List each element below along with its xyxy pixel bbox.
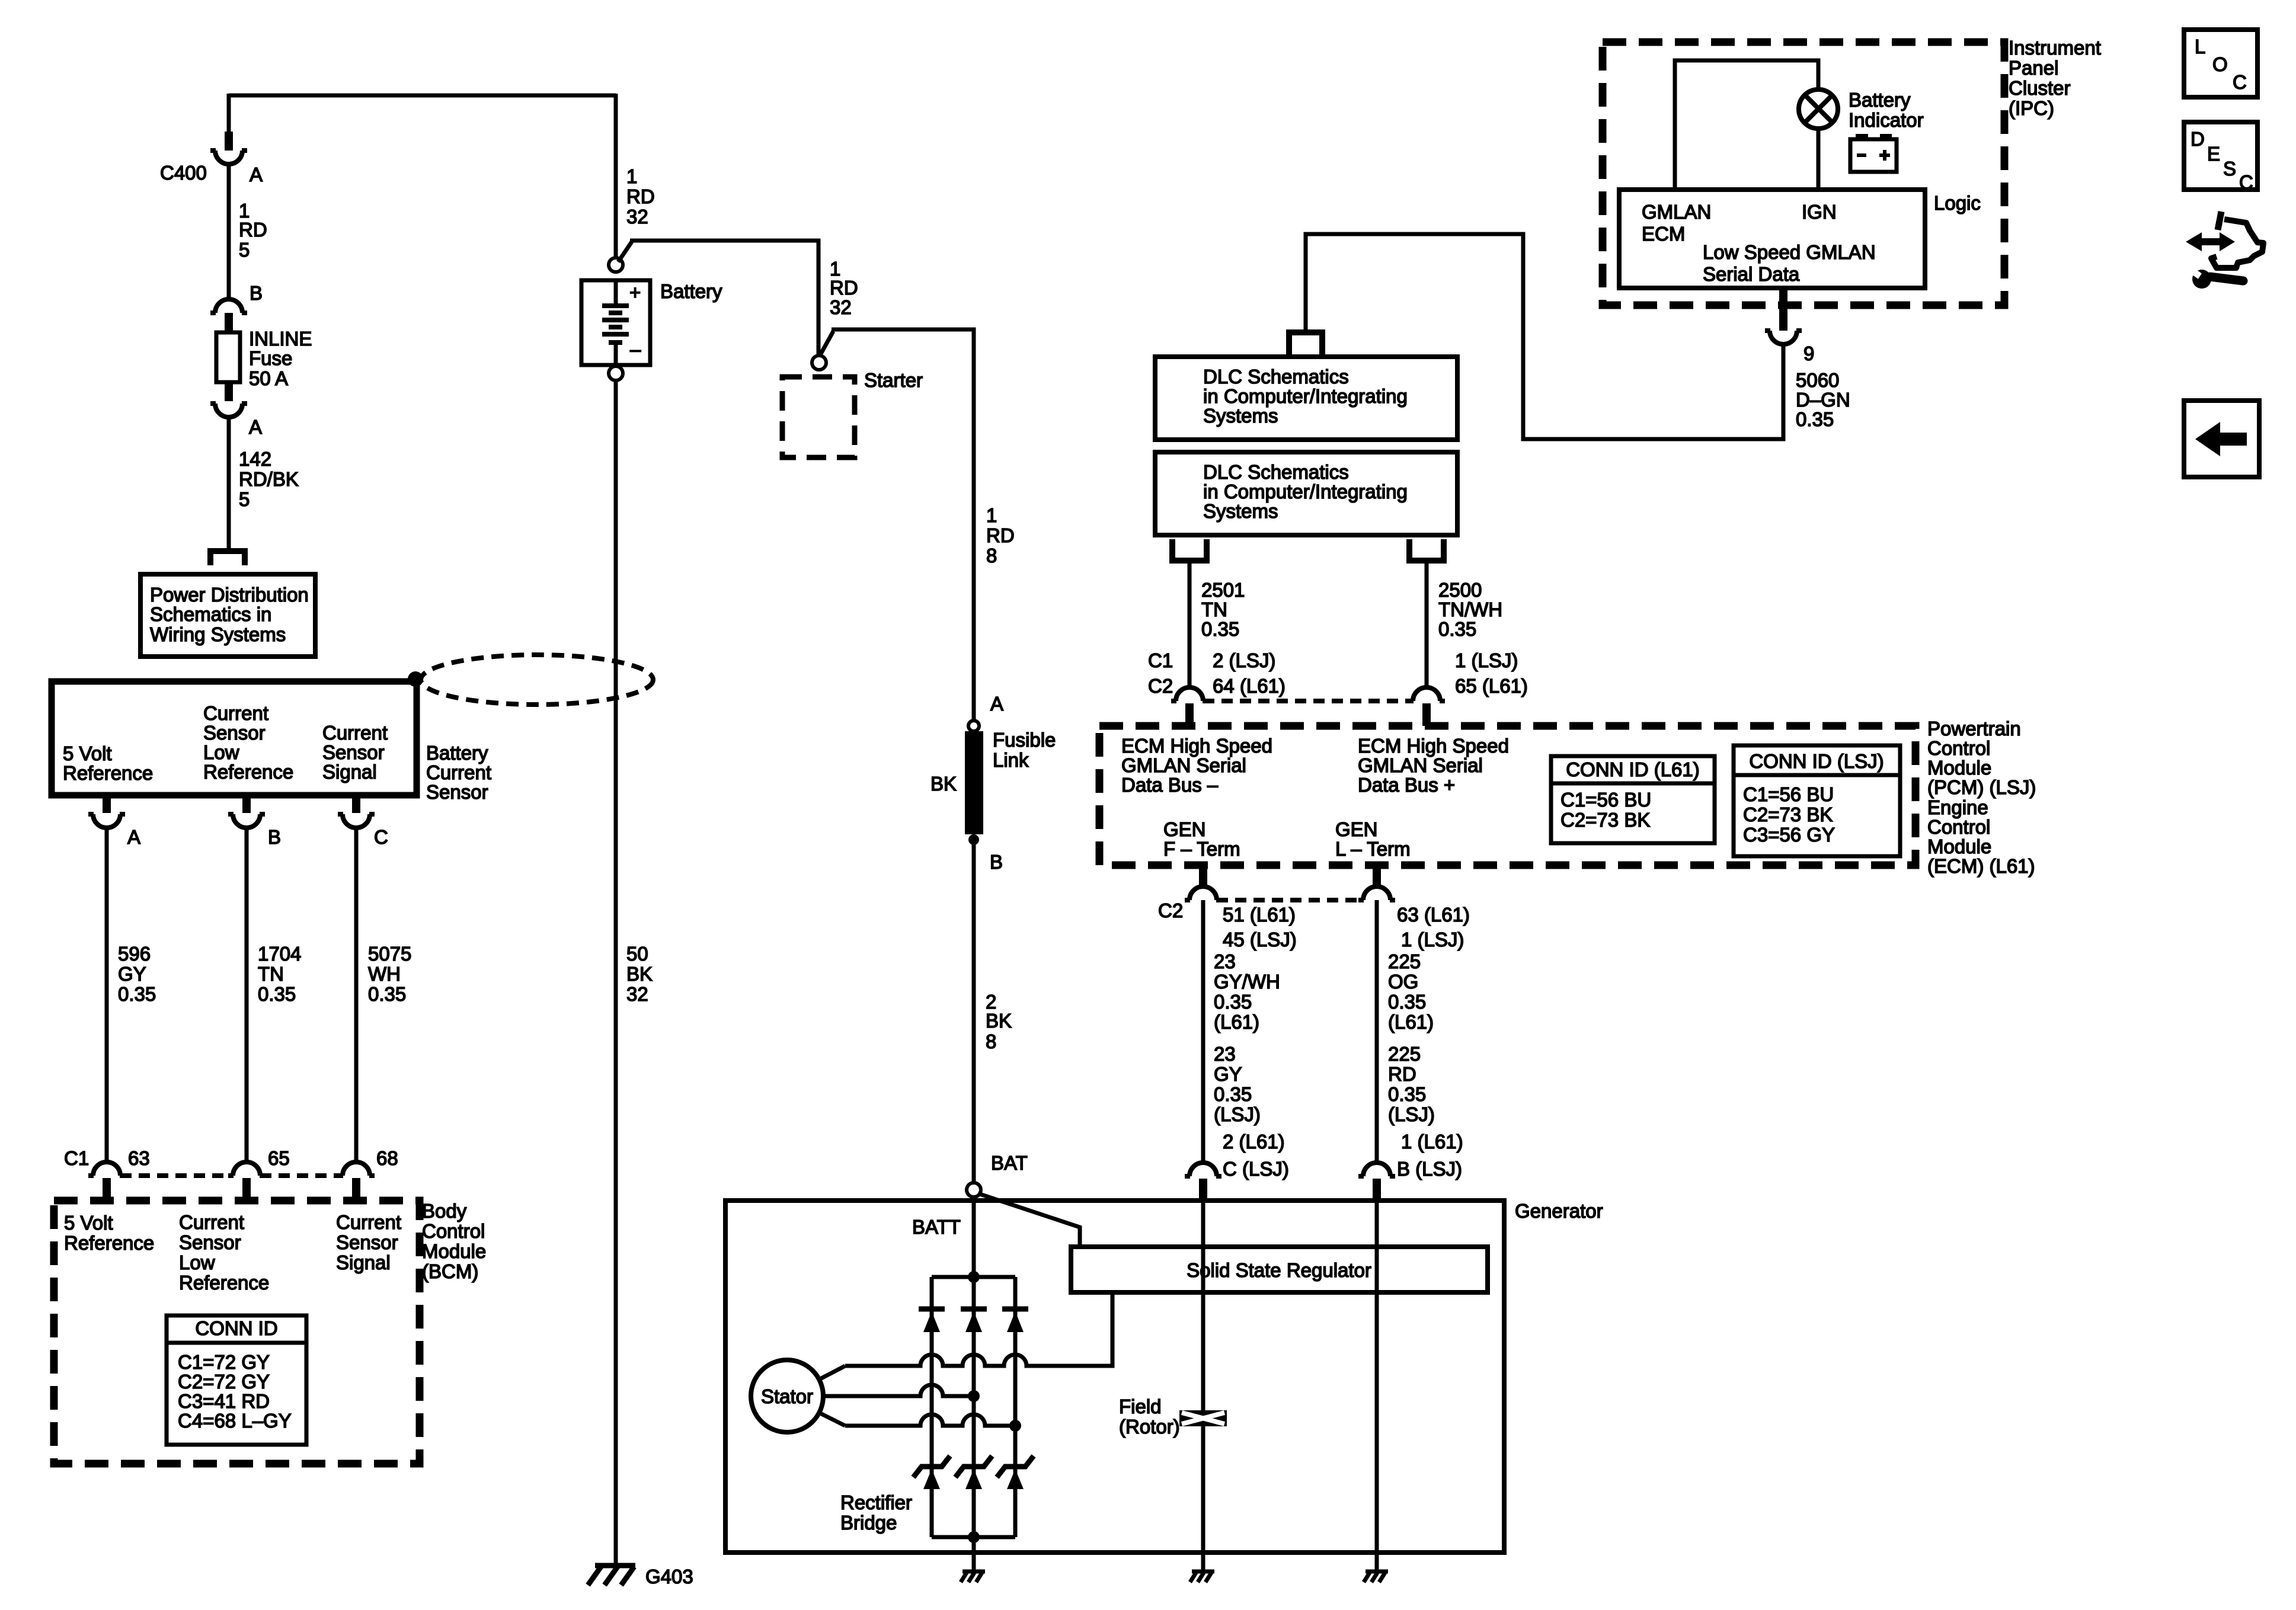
connector: fuse female arc B: [210, 299, 247, 313]
icon box: LOC: [2184, 30, 2257, 97]
svg-text:(LSJ): (LSJ): [1214, 1103, 1261, 1125]
svg-text:Sensor: Sensor: [203, 722, 266, 744]
box: DLC Schematics 2: [1155, 452, 1457, 535]
connector C400 female arc: [210, 151, 247, 164]
svg-text:Low: Low: [203, 741, 239, 763]
svg-text:5060: 5060: [1796, 369, 1839, 391]
diode bottom leg2 (avalanche): [955, 1456, 992, 1477]
wire: IPC serial data to DLC, circuit 5060 D-GN 0.35: [1306, 234, 1783, 439]
wire: diagonal tap at starter stud: [821, 331, 833, 354]
svg-text:1704: 1704: [258, 943, 301, 965]
terminal: battery positive stud: [609, 258, 623, 272]
svg-text:Signal: Signal: [322, 761, 377, 783]
ground: field leg: [1192, 1570, 1214, 1574]
svg-text:GMLAN Serial: GMLAN Serial: [1358, 754, 1483, 776]
connector: female arc A below fuse: [210, 404, 247, 417]
svg-text:(LSJ): (LSJ): [1388, 1103, 1435, 1125]
svg-text:Schematics in: Schematics in: [150, 603, 271, 625]
svg-text:0.35: 0.35: [1201, 618, 1239, 640]
diode top leg1: [919, 1307, 945, 1312]
svg-text:(PCM) (LSJ): (PCM) (LSJ): [1927, 776, 2036, 798]
svg-text:TN: TN: [1201, 598, 1227, 620]
svg-text:68: 68: [376, 1147, 398, 1169]
svg-text:in Computer/Integrating: in Computer/Integrating: [1203, 481, 1408, 502]
svg-text:C1=56 BU: C1=56 BU: [1560, 789, 1651, 811]
lamp: Battery Indicator: [1799, 89, 1838, 129]
wire: BAT stud into rectifier: [972, 1197, 976, 1277]
diode bottom leg3 (avalanche): [997, 1456, 1034, 1477]
svg-text:Engine: Engine: [1927, 796, 1988, 818]
svg-text:Control: Control: [1927, 737, 1990, 759]
svg-text:RD: RD: [626, 185, 655, 207]
svg-text:0.35: 0.35: [1388, 991, 1426, 1013]
svg-text:Field: Field: [1119, 1395, 1162, 1417]
svg-text:50: 50: [626, 943, 648, 965]
svg-text:C4=68 L–GY: C4=68 L–GY: [178, 1410, 292, 1432]
svg-text:Indicator: Indicator: [1849, 109, 1924, 131]
wire: sensor B to BCM 65, circuit 1704 TN 0.35: [245, 828, 249, 1162]
svg-text:OG: OG: [1388, 971, 1418, 993]
svg-text:GMLAN Serial: GMLAN Serial: [1121, 754, 1246, 776]
svg-text:Sensor: Sensor: [179, 1231, 241, 1253]
svg-text:1: 1: [986, 504, 997, 526]
svg-text:0.35: 0.35: [118, 983, 156, 1005]
svg-text:32: 32: [830, 296, 852, 318]
svg-text:Low: Low: [179, 1251, 215, 1273]
connector: ECM pin (GMLAN minus): [1171, 687, 1208, 701]
off-page bracket below DLC box 2 (right): [1409, 539, 1444, 561]
svg-text:Fusible: Fusible: [993, 729, 1056, 751]
svg-text:RD: RD: [1388, 1063, 1416, 1085]
svg-text:Reference: Reference: [64, 1232, 154, 1254]
svg-text:(BCM): (BCM): [422, 1260, 478, 1282]
wire: diagonal tap from battery positive to starter feed: [618, 242, 632, 262]
box: Body Control Module (BCM) dashed: [54, 1201, 420, 1464]
svg-text:1 (LSJ): 1 (LSJ): [1401, 929, 1464, 950]
svg-text:C (LSJ): C (LSJ): [1223, 1158, 1289, 1180]
wire: rectifier to ground: [972, 1537, 976, 1571]
wire: indicator to logic box: [1817, 129, 1821, 190]
svg-text:C: C: [374, 826, 388, 848]
svg-text:0.35: 0.35: [368, 983, 406, 1005]
svg-text:GEN: GEN: [1335, 818, 1378, 840]
svg-text:Cluster: Cluster: [2009, 77, 2071, 99]
svg-text:0.35: 0.35: [1388, 1083, 1426, 1105]
svg-text:B (LSJ): B (LSJ): [1397, 1158, 1462, 1180]
svg-text:8: 8: [986, 1030, 996, 1052]
terminal: generator BAT stud: [967, 1183, 981, 1197]
svg-text:51 (L61): 51 (L61): [1223, 904, 1296, 926]
table: CONN ID (L61): [1551, 756, 1715, 843]
svg-text:ECM High Speed: ECM High Speed: [1358, 735, 1509, 757]
battery internal bottom lead: [614, 344, 618, 365]
ground: generator BAT leg: [962, 1570, 985, 1574]
svg-text:0.35: 0.35: [1438, 618, 1476, 640]
svg-text:45 (LSJ): 45 (LSJ): [1223, 929, 1297, 950]
svg-text:C1=72 GY: C1=72 GY: [178, 1351, 270, 1373]
svg-text:Logic: Logic: [1934, 192, 1981, 214]
svg-text:Module: Module: [1927, 836, 1991, 857]
rectifier leg 2: [972, 1277, 976, 1537]
svg-text:5 Volt: 5 Volt: [63, 742, 112, 764]
box: Instrument Panel Cluster (IPC) dashed: [1603, 42, 2004, 305]
wire: field to ground leg: [1201, 1426, 1205, 1571]
svg-text:Reference: Reference: [203, 761, 293, 783]
svg-text:BK: BK: [626, 963, 653, 985]
svg-text:C1=56 BU: C1=56 BU: [1743, 783, 1834, 805]
svg-text:596: 596: [118, 943, 151, 965]
svg-text:CONN ID: CONN ID: [195, 1317, 277, 1339]
svg-text:C2: C2: [1148, 675, 1173, 697]
rectifier bottom bus bar: [932, 1535, 1015, 1539]
junction dot bottom: [968, 1531, 980, 1543]
svg-text:63: 63: [128, 1147, 150, 1169]
svg-text:A: A: [250, 164, 263, 185]
battery internal top lead: [614, 280, 618, 304]
svg-text:GY: GY: [1214, 1063, 1242, 1085]
svg-text:2500: 2500: [1438, 579, 1482, 601]
svg-text:L: L: [2195, 36, 2205, 57]
svg-text:INLINE: INLINE: [249, 328, 312, 350]
svg-text:Bridge: Bridge: [840, 1512, 897, 1534]
svg-text:GMLAN: GMLAN: [1642, 201, 1711, 223]
svg-text:L – Term: L – Term: [1335, 838, 1411, 860]
svg-text:0.35: 0.35: [1214, 1083, 1252, 1105]
icon: battery symbol: [1856, 134, 1868, 140]
wire: L-Term to generator, circuits 225 OG + 225 RD: [1375, 900, 1379, 1163]
connector C400 male pin A: [225, 132, 233, 151]
svg-text:65: 65: [268, 1147, 290, 1169]
svg-text:C: C: [2233, 71, 2247, 93]
svg-text:32: 32: [626, 983, 648, 1005]
stator circle: [751, 1360, 823, 1432]
svg-text:BAT: BAT: [991, 1152, 1028, 1174]
svg-text:DLC Schematics: DLC Schematics: [1203, 461, 1349, 483]
junction: fusible link bottom splice: [968, 834, 979, 845]
box: Solid State Regulator: [1071, 1247, 1488, 1292]
svg-text:D–GN: D–GN: [1796, 389, 1850, 411]
svg-text:A: A: [249, 416, 262, 438]
connector: fuse top male pin: [225, 313, 233, 333]
svg-text:Sensor: Sensor: [336, 1231, 398, 1253]
svg-text:S: S: [2223, 158, 2236, 180]
icon box: DESC: [2184, 122, 2257, 190]
svg-text:Battery: Battery: [426, 742, 488, 764]
diode top leg3: [1002, 1307, 1028, 1312]
svg-text:Battery: Battery: [660, 280, 722, 302]
svg-text:Reference: Reference: [179, 1272, 269, 1294]
connector: generator L terminal: [1358, 1163, 1395, 1176]
svg-text:50 A: 50 A: [249, 367, 288, 389]
terminal: starter battery stud: [812, 356, 826, 370]
svg-text:WH: WH: [368, 963, 401, 985]
svg-text:G403: G403: [645, 1566, 693, 1587]
svg-text:Current: Current: [179, 1211, 244, 1233]
box: DLC Schematics 1: [1155, 357, 1457, 440]
table: CONN ID (BCM): [167, 1315, 306, 1445]
stator lead diagonals: [819, 1366, 845, 1426]
svg-text:BK: BK: [986, 1010, 1012, 1032]
svg-text:Generator: Generator: [1515, 1200, 1603, 1222]
svg-text:225: 225: [1388, 1043, 1421, 1065]
svg-text:RD/BK: RD/BK: [239, 468, 299, 490]
svg-text:Body: Body: [422, 1200, 467, 1222]
stator phase line 3: [845, 1414, 1015, 1426]
svg-text:64 (L61): 64 (L61): [1213, 675, 1285, 697]
wire: sensor A to BCM 63, circuit 596 GY 0.35: [105, 828, 109, 1162]
svg-text:Systems: Systems: [1203, 405, 1278, 427]
connector: ECM GEN L-Term pin: [1373, 867, 1381, 887]
svg-text:D: D: [2191, 128, 2205, 150]
wire: battery positive feed to starter, circuit 1 RD 32: [630, 241, 818, 354]
svg-text:Power Distribution: Power Distribution: [150, 584, 309, 606]
svg-text:Sensor: Sensor: [426, 781, 488, 803]
wire: drop from top bus to battery, circuit 1 RD 32: [614, 94, 618, 258]
wire: F-Term to generator, circuits 23 GY/WH + 23 GY: [1201, 900, 1205, 1163]
svg-text:65 (L61): 65 (L61): [1455, 675, 1528, 697]
ground G403: [595, 1563, 635, 1569]
svg-text:C2: C2: [1158, 900, 1183, 921]
connector: IPC pin 9: [1779, 288, 1787, 331]
box: Battery Current Sensor: [52, 681, 417, 795]
svg-text:A: A: [990, 693, 1003, 715]
svg-text:9: 9: [1803, 343, 1814, 364]
connector: sensor pin B: [242, 795, 251, 813]
battery box: [581, 280, 650, 365]
wire: drop to connector C400: [227, 94, 231, 132]
dashed connector line C2 (ECM bottom): [1217, 898, 1363, 902]
box: Starter (dashed): [782, 377, 855, 457]
svg-text:in Computer/Integrating: in Computer/Integrating: [1203, 385, 1408, 407]
svg-text:F – Term: F – Term: [1163, 838, 1240, 860]
stator phase line 1: [845, 1292, 1112, 1366]
svg-text:C2=72 GY: C2=72 GY: [178, 1371, 270, 1393]
svg-text:ECM: ECM: [1642, 223, 1685, 245]
svg-text:Current: Current: [336, 1211, 401, 1233]
svg-text:142: 142: [239, 448, 271, 470]
svg-text:Rectifier: Rectifier: [840, 1491, 912, 1513]
field (rotor) winding symbol: [1179, 1410, 1227, 1426]
svg-text:–: –: [630, 338, 641, 360]
svg-text:DLC Schematics: DLC Schematics: [1203, 366, 1349, 388]
svg-text:C1: C1: [1148, 649, 1173, 671]
wire: BATT diagonal to regulator: [978, 1193, 1080, 1249]
svg-text:RD: RD: [986, 524, 1015, 546]
svg-text:5075: 5075: [368, 943, 411, 965]
svg-text:Reference: Reference: [63, 762, 153, 784]
svg-text:ECM High Speed: ECM High Speed: [1121, 735, 1272, 757]
off-page bracket into DLC schematics box 1: [1289, 332, 1322, 356]
svg-text:Serial Data: Serial Data: [1703, 263, 1800, 285]
battery plate symbols: [602, 303, 629, 308]
svg-text:1: 1: [626, 165, 637, 187]
svg-text:C: C: [2239, 171, 2253, 193]
svg-text:BATT: BATT: [912, 1216, 961, 1238]
svg-text:RD: RD: [239, 219, 267, 241]
svg-text:63 (L61): 63 (L61): [1397, 904, 1470, 926]
icon box: back arrow: [2184, 401, 2259, 477]
svg-text:Systems: Systems: [1203, 500, 1278, 522]
wire: C400 to fuse connector B, circuit 1 RD 5: [227, 164, 231, 299]
off-page bracket below DLC box 2 (left): [1172, 539, 1207, 561]
connector: BCM pin 65: [228, 1162, 265, 1176]
rectifier leg 3: [1013, 1277, 1018, 1537]
svg-text:32: 32: [626, 206, 648, 228]
junction dot BAT/rectifier: [968, 1271, 980, 1283]
svg-text:0.35: 0.35: [1796, 408, 1834, 430]
svg-text:IGN: IGN: [1802, 201, 1837, 223]
box: IPC Logic: [1619, 190, 1925, 288]
svg-text:Current: Current: [322, 722, 388, 744]
svg-text:23: 23: [1214, 1043, 1236, 1065]
wire: sensor C to BCM 68, circuit 5075 WH 0.35: [354, 828, 359, 1162]
svg-text:Battery: Battery: [1849, 89, 1911, 111]
wire: L-term through generator to ground: [1375, 1201, 1379, 1571]
svg-text:2501: 2501: [1201, 579, 1245, 601]
connector: ECM pin (GMLAN plus): [1408, 687, 1445, 701]
svg-text:+: +: [629, 281, 641, 303]
off-page bracket to power distribution: [210, 551, 245, 565]
svg-text:TN/WH: TN/WH: [1438, 598, 1502, 620]
svg-text:C3=41 RD: C3=41 RD: [178, 1390, 270, 1412]
svg-text:Control: Control: [422, 1220, 485, 1242]
table: CONN ID (LSJ): [1734, 745, 1900, 856]
svg-text:TN: TN: [258, 963, 284, 985]
wire: F-term through generator to field: [1201, 1201, 1205, 1410]
svg-text:C1: C1: [64, 1147, 89, 1169]
dashed connector line C1 (BCM): [120, 1173, 343, 1178]
svg-text:Data Bus +: Data Bus +: [1358, 774, 1455, 796]
wire: battery negative to G403, circuit 50 BK 32: [614, 380, 618, 1564]
terminal: fusible link top eyelet: [968, 721, 979, 731]
wire: DLC to ECM GMLAN plus, circuit 2500 TN/WH 0.35: [1425, 561, 1429, 687]
connector: BCM pin 63: [88, 1162, 125, 1176]
svg-text:(ECM) (L61): (ECM) (L61): [1927, 855, 2035, 877]
svg-text:1 (LSJ): 1 (LSJ): [1455, 649, 1518, 671]
svg-text:C2=73 BK: C2=73 BK: [1743, 804, 1833, 825]
svg-text:C2=73 BK: C2=73 BK: [1560, 809, 1650, 831]
fusible link body: [965, 731, 983, 834]
svg-text:(L61): (L61): [1388, 1011, 1434, 1033]
diode top leg2: [961, 1307, 987, 1312]
dashed ellipse: sensor clamp loop: [421, 655, 653, 705]
svg-text:Starter: Starter: [864, 369, 923, 391]
svg-text:225: 225: [1388, 950, 1421, 972]
svg-text:5: 5: [239, 488, 250, 510]
svg-text:0.35: 0.35: [258, 983, 296, 1005]
svg-text:Sensor: Sensor: [322, 741, 385, 763]
svg-text:Low Speed GMLAN: Low Speed GMLAN: [1703, 241, 1876, 263]
svg-text:O: O: [2212, 53, 2228, 75]
svg-text:Current: Current: [203, 702, 268, 724]
svg-text:Panel: Panel: [2009, 57, 2058, 79]
svg-text:1 (L61): 1 (L61): [1401, 1131, 1463, 1153]
svg-text:2 (LSJ): 2 (LSJ): [1213, 649, 1275, 671]
connector: sensor pin A: [103, 795, 111, 813]
svg-text:Fuse: Fuse: [249, 347, 292, 369]
ground: L-term leg: [1366, 1570, 1388, 1574]
svg-text:8: 8: [986, 545, 997, 566]
rectifier leg 1: [930, 1277, 934, 1537]
svg-text:Module: Module: [422, 1240, 486, 1262]
svg-text:Current: Current: [426, 761, 491, 783]
svg-text:2 (L61): 2 (L61): [1223, 1131, 1285, 1153]
svg-text:A: A: [127, 826, 140, 848]
connector: ECM GEN F-Term pin: [1199, 867, 1207, 887]
svg-text:CONN ID (L61): CONN ID (L61): [1566, 758, 1700, 780]
svg-text:B: B: [250, 282, 263, 304]
dashed connector line C1/C2 (ECM top): [1203, 699, 1413, 703]
terminal: battery negative stud: [609, 366, 623, 380]
fuse: INLINE Fuse 50 A body: [216, 332, 240, 382]
svg-text:E: E: [2207, 143, 2220, 165]
svg-text:Data Bus –: Data Bus –: [1121, 774, 1219, 796]
box: Generator: [725, 1201, 1504, 1553]
svg-text:Link: Link: [993, 749, 1029, 771]
svg-text:RD: RD: [830, 277, 858, 299]
stator phase line 2: [823, 1385, 974, 1396]
svg-text:(Rotor): (Rotor): [1119, 1416, 1180, 1438]
wire: DLC to ECM GMLAN minus, circuit 2501 TN 0.35: [1188, 561, 1192, 687]
wire: fuse to power distribution, circuit 142 RD/BK 5: [227, 417, 231, 551]
svg-text:BK: BK: [930, 773, 957, 795]
connector: sensor pin C: [352, 795, 360, 813]
box: Power Distribution Schematics in Wiring Systems: [140, 574, 315, 657]
svg-text:GY: GY: [118, 963, 146, 985]
svg-text:Stator: Stator: [761, 1385, 813, 1407]
svg-text:0.35: 0.35: [1214, 991, 1252, 1013]
wire: IPC internal loop logic to indicator: [1675, 60, 1818, 190]
box: PCM/ECM dashed: [1099, 726, 1916, 865]
connector: fuse bottom male pin: [225, 381, 233, 401]
svg-text:(IPC): (IPC): [2009, 97, 2054, 119]
wire: fusible link to generator BAT, circuit 2 BK 8: [972, 840, 976, 1183]
svg-text:CONN ID (LSJ): CONN ID (LSJ): [1749, 750, 1884, 772]
svg-text:Solid State Regulator: Solid State Regulator: [1187, 1259, 1371, 1281]
svg-text:C3=56 GY: C3=56 GY: [1743, 824, 1835, 846]
svg-text:B: B: [268, 826, 281, 848]
svg-text:23: 23: [1214, 950, 1236, 972]
rectifier top bus bar: [932, 1275, 1015, 1279]
svg-text:Wiring Systems: Wiring Systems: [150, 623, 286, 645]
svg-text:Control: Control: [1927, 816, 1990, 838]
svg-text:5 Volt: 5 Volt: [64, 1212, 113, 1234]
connector: generator F terminal: [1185, 1163, 1221, 1176]
svg-text:B: B: [990, 851, 1003, 873]
svg-text:Instrument: Instrument: [2009, 37, 2101, 59]
junction: sensor case node: [408, 671, 423, 687]
icon: vehicle with double arrow and wrench: [2186, 232, 2235, 251]
svg-text:(L61): (L61): [1214, 1011, 1259, 1033]
svg-text:Module: Module: [1927, 757, 1991, 779]
connector: BCM pin 68: [338, 1162, 375, 1176]
svg-text:C400: C400: [160, 162, 207, 184]
svg-text:Signal: Signal: [336, 1251, 391, 1273]
wire: starter to fusible link, circuit 1 RD 8: [832, 329, 974, 721]
svg-text:GY/WH: GY/WH: [1214, 971, 1280, 993]
svg-text:5: 5: [239, 239, 250, 261]
diode bottom leg1 (avalanche): [913, 1456, 950, 1477]
wire: top horizontal bus from C400 drop to battery positive drop: [229, 94, 616, 98]
svg-text:GEN: GEN: [1163, 818, 1206, 840]
svg-text:Powertrain: Powertrain: [1927, 718, 2021, 740]
